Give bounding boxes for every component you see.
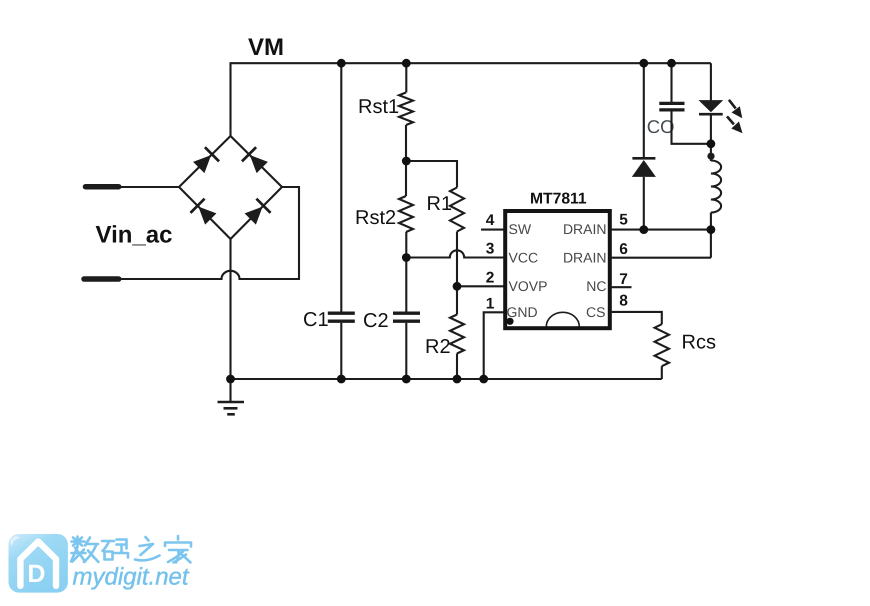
svg-text:8: 8: [619, 292, 628, 309]
inductor L1: [711, 161, 721, 213]
svg-text:4: 4: [486, 212, 495, 229]
wire C1 branch lower: [340, 323, 342, 379]
junction dot rail C2: [402, 375, 411, 384]
svg-text:DRAIN: DRAIN: [563, 221, 607, 237]
wire C2 lower: [405, 323, 407, 379]
wire DRAIN pin5: [610, 229, 711, 231]
junction dot drain node diode: [639, 225, 648, 234]
resistor R2: [450, 315, 464, 354]
logo text zhi: [135, 537, 160, 560]
wire R2 to rail: [456, 354, 458, 380]
svg-text:VOVP: VOVP: [509, 278, 548, 294]
junction dot Rst1 bottom node: [402, 157, 411, 166]
svg-text:5: 5: [619, 212, 628, 229]
junction dot rail R2: [453, 375, 462, 384]
wire VCC with hop over R1 branch: [406, 250, 505, 257]
logo text jia: [165, 536, 191, 563]
svg-text:VCC: VCC: [509, 249, 539, 265]
svg-text:R1: R1: [427, 193, 453, 215]
svg-text:3: 3: [486, 241, 495, 258]
svg-text:D: D: [27, 560, 45, 588]
logo house outline: [20, 542, 56, 586]
junction dot top rail C1: [337, 59, 346, 68]
svg-text:NC: NC: [586, 278, 606, 294]
wire Rst branch top: [405, 63, 407, 92]
junction dot top rail CO: [667, 59, 676, 68]
logo text ma: [102, 540, 128, 560]
resistor Rcs: [655, 324, 669, 366]
wire NC stub pin 7: [610, 286, 632, 288]
input terminal 1: [86, 184, 119, 190]
input terminal 2: [84, 276, 119, 282]
svg-text:6: 6: [619, 241, 628, 258]
wire freewheel diode upper: [643, 63, 645, 158]
wire R1 to R2: [456, 232, 458, 315]
IC bottom notch: [546, 312, 579, 326]
svg-text:2: 2: [486, 269, 495, 286]
wire ground rail: [231, 378, 662, 380]
svg-text:mydigit.net: mydigit.net: [73, 564, 190, 591]
logo icon background: [9, 534, 68, 593]
wire DRAIN pin6: [610, 257, 711, 259]
junction dot VCC node: [402, 253, 411, 262]
logo text shu: [71, 537, 99, 563]
wire inductor to pin6: [710, 213, 712, 258]
junction dot top rail Rst1: [402, 59, 411, 68]
resistor Rst2: [399, 196, 413, 232]
wire VM top rail: [231, 63, 711, 136]
LED emission arrow 1: [729, 100, 747, 122]
svg-text:1: 1: [486, 296, 495, 313]
wire CO lower to LED branch: [672, 111, 711, 144]
wire LED branch top: [710, 63, 712, 101]
resistor R1: [450, 188, 464, 232]
ground symbol: [218, 379, 245, 414]
wire CS pin8 to Rcs: [610, 312, 662, 324]
junction dot CO LED node: [707, 139, 716, 148]
svg-text:GND: GND: [507, 304, 538, 320]
svg-text:7: 7: [619, 271, 628, 288]
diode D1 freewheel: [632, 158, 656, 177]
IC pin1 dot: [506, 318, 513, 325]
junction dot VOVP node: [453, 282, 462, 291]
capacitor C2: [393, 313, 420, 321]
junction dot top rail diode: [639, 59, 648, 68]
svg-text:CS: CS: [586, 304, 605, 320]
svg-text:Rst2: Rst2: [355, 207, 396, 229]
svg-text:C2: C2: [363, 310, 389, 332]
junction dot rail GND riser: [479, 375, 488, 384]
svg-text:Rst1: Rst1: [358, 96, 399, 118]
svg-text:SW: SW: [509, 221, 532, 237]
LED D2: [699, 100, 724, 114]
wire VOVP: [457, 285, 506, 287]
wire Rst2 to C2: [405, 232, 407, 312]
junction dot drain node inductor: [707, 225, 716, 234]
wire Rst1 to Rst2: [405, 125, 407, 196]
wire LED to inductor node: [710, 114, 712, 161]
wire terminal1 to bridge: [117, 186, 179, 188]
wire bridge bottom riser: [229, 239, 231, 379]
svg-text:VM: VM: [248, 34, 284, 61]
resistor Rst1: [399, 93, 413, 126]
bridge rectifier outline: [179, 136, 282, 239]
junction dot rail C1: [337, 375, 346, 384]
LED emission arrow 2: [727, 116, 746, 136]
capacitor CO: [659, 103, 684, 110]
inductor phasing dot: [707, 153, 714, 160]
bridge diode top-right: [242, 147, 269, 174]
wire C1 branch upper: [340, 63, 342, 312]
bridge diode top-left: [192, 147, 219, 174]
junction dot rail ground riser: [226, 375, 235, 384]
wire terminal2 to bridge right vertex with hop: [117, 187, 299, 279]
op-amp U1 MT7811 body: [505, 211, 610, 328]
capacitor C1: [328, 313, 355, 321]
bridge diode bottom-left: [190, 199, 217, 226]
svg-text:C1: C1: [303, 309, 329, 331]
svg-text:R2: R2: [425, 336, 451, 358]
wire CO upper: [670, 63, 672, 102]
svg-text:Vin_ac: Vin_ac: [96, 222, 173, 249]
wire GND pin to rail: [484, 312, 506, 379]
wire Rcs to rail: [661, 366, 663, 379]
bridge diode bottom-right: [243, 199, 270, 226]
wire node to R1 top: [406, 161, 457, 188]
svg-text:MT7811: MT7811: [530, 191, 587, 208]
wire SW stub pin 4: [481, 229, 506, 231]
wire diode to drain node: [643, 177, 645, 230]
svg-text:CO: CO: [647, 116, 675, 137]
svg-text:DRAIN: DRAIN: [563, 249, 607, 265]
svg-text:Rcs: Rcs: [682, 332, 716, 354]
